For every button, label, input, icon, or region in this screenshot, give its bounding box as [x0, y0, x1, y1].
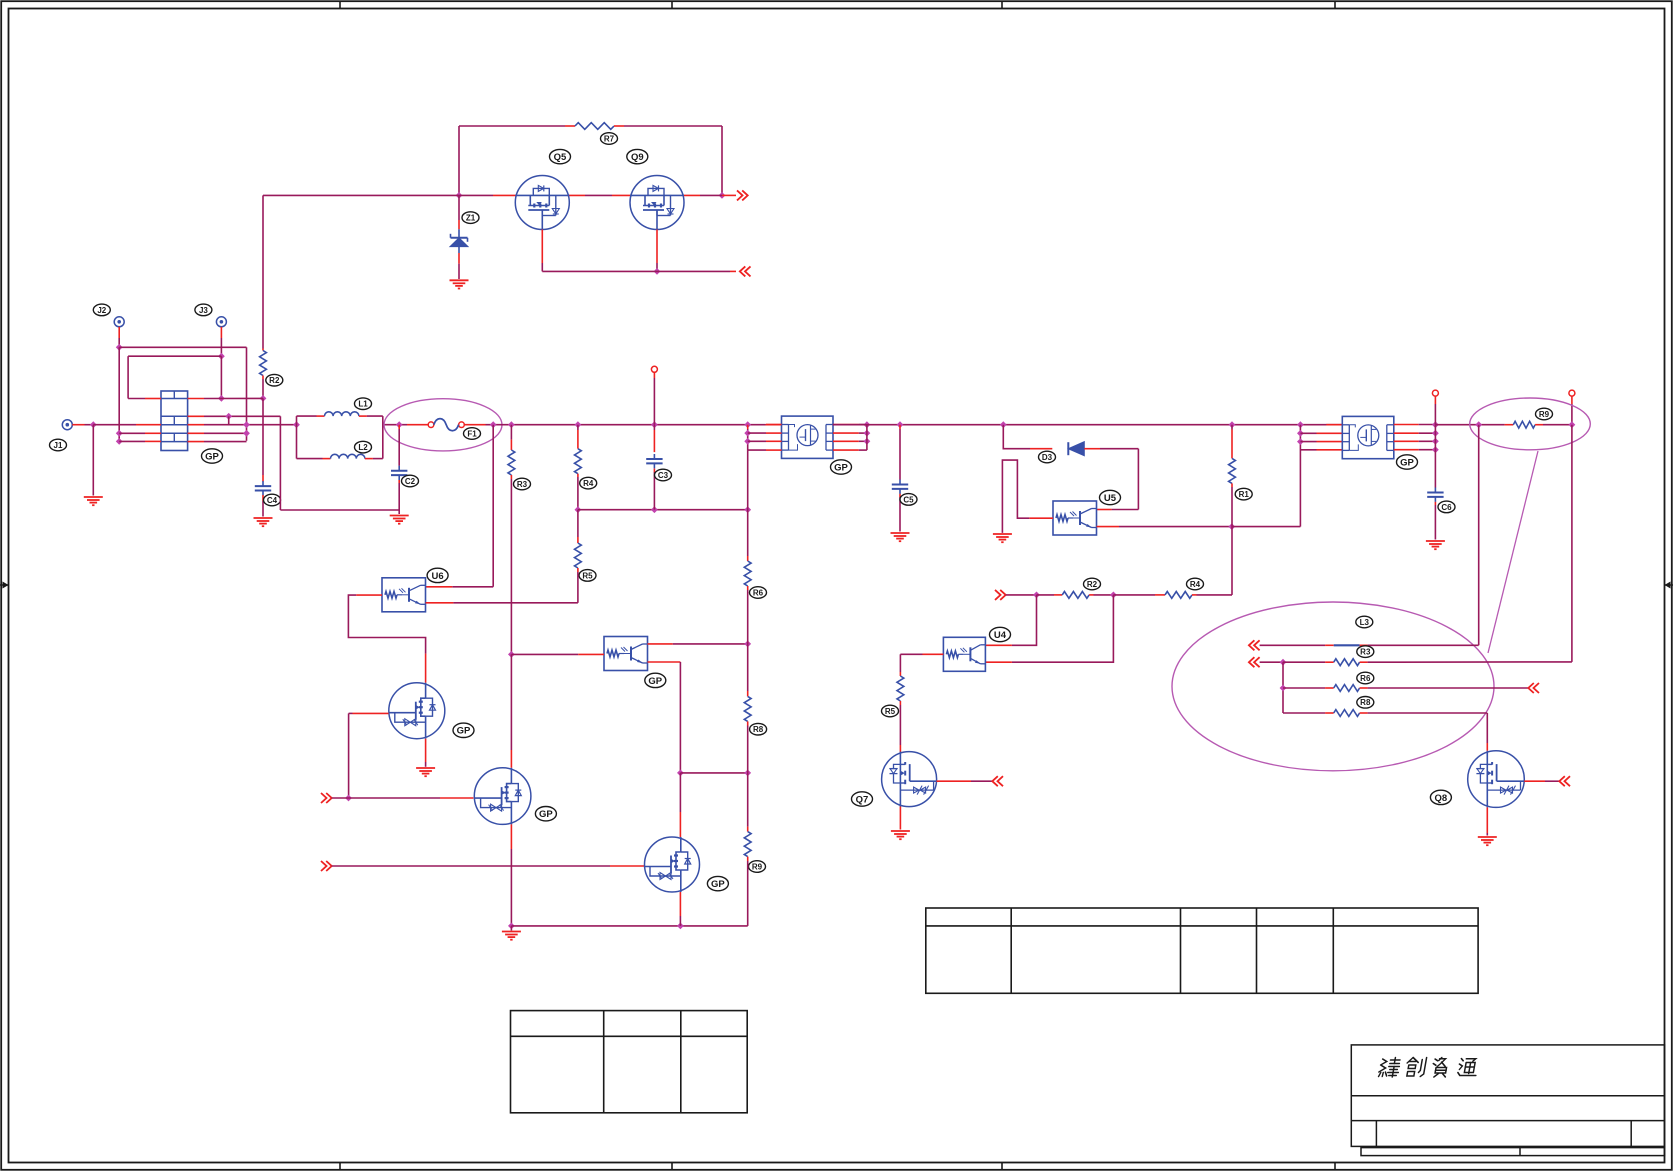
svg-text:GP: GP: [539, 809, 553, 820]
svg-text:C3: C3: [658, 471, 669, 480]
svg-text:J2: J2: [97, 306, 106, 315]
svg-text:R8: R8: [1360, 698, 1371, 707]
svg-text:R9: R9: [752, 862, 763, 871]
svg-text:GP: GP: [1400, 457, 1414, 468]
svg-text:J1: J1: [54, 441, 63, 450]
svg-text:GP: GP: [834, 462, 848, 473]
svg-text:R5: R5: [582, 571, 593, 580]
svg-text:U6: U6: [432, 571, 444, 582]
svg-text:Q7: Q7: [856, 794, 869, 805]
svg-text:GP: GP: [457, 726, 471, 737]
svg-text:R2: R2: [269, 376, 280, 385]
svg-text:U4: U4: [994, 630, 1007, 641]
svg-text:Q8: Q8: [1435, 793, 1448, 804]
svg-text:Q9: Q9: [631, 152, 644, 163]
svg-text:U5: U5: [1104, 493, 1117, 504]
svg-text:Z1: Z1: [466, 213, 476, 222]
svg-text:R1: R1: [1239, 490, 1250, 499]
svg-text:R3: R3: [1360, 647, 1371, 656]
svg-text:C5: C5: [903, 495, 914, 504]
svg-text:D3: D3: [1042, 453, 1053, 462]
svg-text:GP: GP: [711, 879, 725, 890]
svg-text:R4: R4: [1190, 580, 1201, 589]
svg-text:R5: R5: [885, 707, 896, 716]
svg-text:L1: L1: [358, 400, 368, 409]
svg-text:L2: L2: [358, 443, 368, 452]
svg-text:R3: R3: [517, 480, 528, 489]
svg-text:R6: R6: [753, 588, 764, 597]
svg-text:R7: R7: [604, 134, 615, 143]
svg-text:C4: C4: [267, 496, 278, 505]
svg-text:L3: L3: [1360, 618, 1370, 627]
svg-text:J3: J3: [199, 306, 208, 315]
svg-text:R4: R4: [583, 479, 594, 488]
svg-text:R2: R2: [1087, 580, 1098, 589]
svg-text:C6: C6: [1441, 503, 1452, 512]
svg-text:F1: F1: [467, 429, 477, 438]
svg-text:C2: C2: [405, 477, 416, 486]
svg-text:R6: R6: [1360, 674, 1371, 683]
svg-text:Q5: Q5: [554, 152, 567, 163]
svg-text:R8: R8: [753, 725, 764, 734]
svg-text:GP: GP: [205, 451, 219, 462]
svg-text:R9: R9: [1539, 410, 1550, 419]
svg-text:GP: GP: [648, 676, 662, 687]
